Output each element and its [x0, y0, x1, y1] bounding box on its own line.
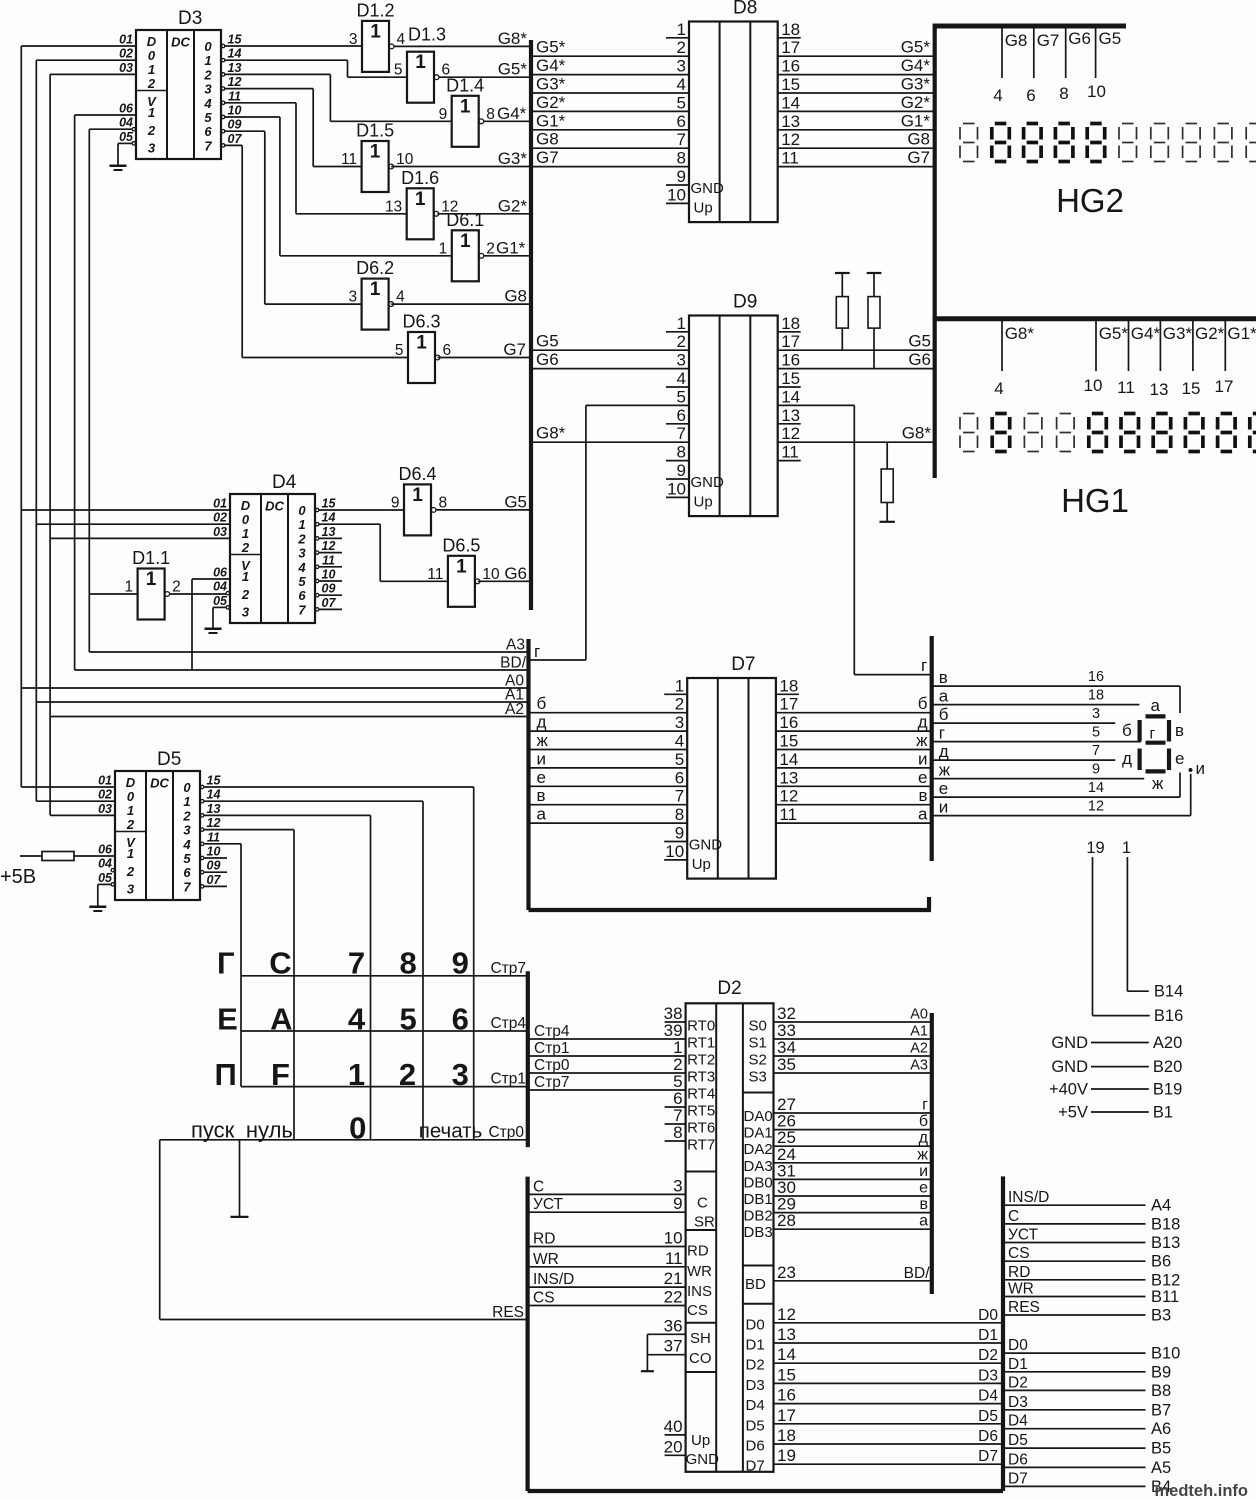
svg-text:B19: B19 [1153, 1081, 1182, 1099]
svg-text:G5*: G5* [536, 38, 566, 57]
wire segment i to sketch [932, 774, 1191, 817]
svg-text:+40V: +40V [1049, 1081, 1088, 1099]
svg-text:05: 05 [119, 130, 134, 144]
svg-text:5: 5 [204, 110, 212, 125]
svg-text:23: 23 [777, 1263, 796, 1282]
bus keyboard strobes to D2 [528, 1023, 686, 1040]
svg-text:8: 8 [399, 946, 416, 981]
net A1 wire D3.02 D4.02 D5.02 [36, 60, 230, 801]
svg-text:1: 1 [460, 231, 471, 252]
svg-text:3: 3 [242, 605, 250, 620]
svg-text:RD: RD [1008, 1264, 1030, 1281]
svg-text:б: б [537, 694, 547, 713]
svg-text:УСТ: УСТ [1008, 1227, 1039, 1244]
svg-text:DA0: DA0 [744, 1108, 773, 1125]
wire D1.1 output to D4.04 and BD [169, 579, 230, 670]
inverter D1.1 [124, 548, 180, 620]
svg-text:C: C [697, 1195, 708, 1212]
svg-text:1: 1 [456, 556, 467, 577]
ground at D3.05 [110, 143, 133, 170]
svg-text:5: 5 [677, 387, 686, 406]
svg-text:4: 4 [182, 837, 191, 852]
D2 Up GND pins 40 20 [664, 1417, 719, 1468]
svg-text:г: г [534, 642, 540, 661]
svg-text:13: 13 [777, 1325, 796, 1344]
svg-text:Up: Up [692, 856, 711, 873]
net A2 wire D3.03 D4.03 D5.03 [50, 74, 230, 815]
svg-text:д: д [939, 742, 949, 761]
svg-text:D: D [126, 775, 136, 790]
svg-text:CO: CO [689, 1350, 712, 1367]
connector wire C to B18 [1003, 1208, 1180, 1234]
svg-text:GND: GND [691, 180, 725, 197]
D3 input inversion circles [132, 128, 135, 146]
wire D9 pin16 to right bus G6 [778, 350, 935, 369]
svg-text:G5: G5 [1099, 29, 1122, 48]
wire D5.14 to keyboard column 4 [204, 801, 424, 1140]
svg-text:19: 19 [777, 1446, 796, 1465]
svg-text:2: 2 [172, 579, 181, 596]
svg-text:D4: D4 [746, 1397, 765, 1414]
svg-text:B20: B20 [1153, 1058, 1182, 1076]
svg-text:9: 9 [675, 824, 684, 843]
wire D6.5 output to bus G6 [478, 564, 531, 583]
svg-text:4: 4 [348, 1001, 366, 1036]
svg-text:D8: D8 [733, 0, 757, 19]
svg-text:5: 5 [675, 750, 684, 769]
inverter D1.6 [385, 168, 459, 240]
svg-text:11: 11 [665, 1249, 683, 1268]
wire D9 pin12 to right bus G8* [778, 424, 935, 443]
svg-text:16: 16 [777, 1386, 796, 1405]
svg-text:2: 2 [677, 332, 686, 351]
svg-text:medteh.info: medteh.info [1155, 1482, 1249, 1500]
svg-text:02: 02 [119, 47, 133, 61]
svg-text:5: 5 [399, 1001, 416, 1036]
connector wire D3 to B7 [1003, 1394, 1171, 1420]
svg-text:16: 16 [779, 713, 798, 732]
connector +40V B19 [1049, 1081, 1182, 1099]
svg-text:е: е [939, 779, 948, 798]
svg-text:D3: D3 [1008, 1394, 1028, 1411]
svg-text:2: 2 [126, 817, 135, 832]
svg-text:пуск: пуск [191, 1118, 235, 1143]
pusk button contact drop with bar [231, 1140, 249, 1217]
svg-text:4: 4 [994, 379, 1003, 398]
svg-text:10: 10 [665, 842, 684, 861]
svg-text:0: 0 [127, 789, 135, 804]
svg-text:6: 6 [183, 865, 191, 880]
svg-text:04: 04 [119, 116, 133, 130]
wire UST to D2 pin9 [528, 1196, 686, 1213]
wire D1.4 output G4* to bus [483, 104, 531, 123]
svg-text:2: 2 [241, 540, 250, 555]
svg-text:ж: ж [537, 731, 549, 750]
svg-text:BD: BD [745, 1276, 766, 1293]
svg-text:G8*: G8* [902, 424, 932, 443]
D2 SH CO section grounded pins 36 37 [641, 1316, 712, 1371]
svg-text:в: в [920, 1196, 929, 1213]
wire D1.3 output to bus G5* [439, 60, 531, 79]
svg-text:D: D [241, 498, 251, 513]
svg-text:13: 13 [781, 112, 800, 131]
svg-text:1: 1 [124, 579, 133, 596]
svg-text:B5: B5 [1151, 1440, 1171, 1458]
svg-text:18: 18 [779, 676, 798, 695]
connector wire УСТ to B13 [1003, 1227, 1180, 1253]
svg-text:G8: G8 [1005, 31, 1028, 50]
svg-text:01: 01 [98, 774, 112, 788]
key labels row 4 [191, 1110, 482, 1145]
svg-text:RT6: RT6 [687, 1120, 715, 1137]
svg-text:G1*: G1* [1227, 324, 1256, 343]
wire A1 line to bus [36, 687, 528, 704]
svg-text:10: 10 [667, 185, 686, 204]
svg-text:G1*: G1* [496, 238, 526, 257]
svg-text:12: 12 [781, 130, 800, 149]
D2 BD label pin 23 [745, 1263, 796, 1293]
svg-text:A0: A0 [910, 1007, 928, 1023]
D5 output stubs [205, 858, 228, 886]
thick junction line below D7 [529, 897, 932, 910]
svg-text:3: 3 [148, 141, 156, 156]
D5 input inversion circles [111, 869, 114, 887]
svg-text:07: 07 [228, 132, 243, 146]
svg-text:B14: B14 [1154, 983, 1183, 1001]
svg-text:д: д [537, 713, 547, 732]
D3 input pin numbers [119, 33, 134, 144]
wire bus to D9 pin2 G5 [531, 332, 689, 351]
svg-text:3: 3 [298, 546, 306, 561]
svg-text:13: 13 [207, 802, 221, 816]
bus G-signals left [529, 40, 533, 610]
svg-text:D6.5: D6.5 [442, 535, 480, 555]
svg-text:4: 4 [677, 75, 686, 94]
wire D3.12 to D1.5 input [224, 89, 362, 167]
svg-text:С: С [269, 946, 291, 981]
HG2 pin line G8 [993, 29, 1027, 106]
svg-text:7: 7 [1092, 743, 1100, 759]
svg-text:12: 12 [1088, 799, 1104, 815]
svg-text:G1*: G1* [536, 111, 566, 130]
svg-text:3: 3 [452, 1057, 469, 1092]
keyboard row wire Str1 [241, 1071, 528, 1088]
svg-text:D6.1: D6.1 [446, 210, 484, 230]
svg-text:4: 4 [203, 96, 212, 111]
svg-text:5: 5 [394, 62, 403, 79]
wire D3.14 to D1.3 input [224, 60, 407, 77]
svg-text:A1: A1 [910, 1024, 928, 1040]
bus control left [525, 1177, 529, 1491]
svg-text:G8: G8 [907, 130, 930, 149]
svg-text:7: 7 [298, 602, 306, 617]
svg-text:3: 3 [677, 57, 686, 76]
D2 DB labels [744, 1161, 796, 1241]
HG1 top line [933, 316, 1256, 321]
svg-text:06: 06 [98, 843, 113, 857]
wire D3.10 to D6.1 input [224, 117, 452, 256]
svg-text:D4: D4 [1008, 1413, 1028, 1430]
svg-text:D5: D5 [157, 749, 181, 770]
svg-text:2: 2 [203, 67, 212, 82]
svg-text:WR: WR [1008, 1281, 1034, 1298]
connector wire D5 to B5 [1003, 1432, 1171, 1458]
HG1 pin line G8* [994, 321, 1034, 398]
wire segment e to sketch [932, 773, 1180, 799]
svg-text:д: д [918, 713, 928, 732]
svg-text:B16: B16 [1154, 1007, 1183, 1025]
svg-text:D9: D9 [733, 292, 757, 313]
svg-text:4: 4 [677, 369, 686, 388]
D2 C SR section [673, 1177, 715, 1231]
svg-text:7: 7 [675, 787, 684, 806]
inverter D1.3 [394, 25, 450, 103]
svg-text:ж: ж [917, 1146, 928, 1163]
svg-text:A3: A3 [506, 637, 525, 654]
wire D4.15 to D6.4 input [318, 509, 404, 511]
svg-text:1: 1 [677, 314, 686, 333]
connector wire WR to B11 [1003, 1281, 1179, 1307]
svg-text:G2*: G2* [498, 196, 528, 215]
svg-text:B6: B6 [1151, 1253, 1171, 1271]
D3 output pin numbers [228, 33, 243, 146]
svg-text:GND: GND [1051, 1058, 1088, 1076]
svg-text:1: 1 [415, 52, 426, 73]
svg-text:WR: WR [533, 1251, 559, 1268]
svg-text:G4*: G4* [497, 104, 527, 123]
bus D7 left [526, 639, 530, 910]
svg-text:D3: D3 [978, 1367, 998, 1384]
svg-text:13: 13 [322, 525, 336, 539]
svg-text:11: 11 [228, 89, 241, 103]
wire segment b to sketch [932, 705, 1116, 724]
svg-text:D5: D5 [746, 1417, 765, 1434]
svg-text:B3: B3 [1151, 1307, 1171, 1325]
svg-text:CS: CS [1008, 1245, 1030, 1262]
svg-text:B12: B12 [1151, 1271, 1180, 1289]
D4 input pin numbers [213, 497, 228, 608]
svg-text:17: 17 [781, 38, 800, 57]
svg-text:8: 8 [677, 443, 686, 462]
svg-text:14: 14 [228, 47, 242, 61]
svg-text:S0: S0 [749, 1018, 767, 1035]
svg-text:а: а [537, 805, 547, 824]
pull-up resistor R1 on G5 wire [835, 273, 850, 350]
svg-text:8: 8 [1059, 84, 1068, 103]
svg-text:GND: GND [689, 837, 723, 854]
svg-text:G7: G7 [1037, 31, 1060, 50]
svg-text:G8*: G8* [536, 424, 566, 443]
D2 RD WR INS CS section [664, 1229, 712, 1320]
svg-text:06: 06 [213, 566, 228, 580]
wire segment zh to sketch [932, 761, 1144, 780]
svg-text:7: 7 [348, 946, 365, 981]
net A3 wire from D3.04 [89, 129, 132, 652]
svg-text:G5*: G5* [901, 38, 931, 57]
inverter D1.2 [349, 0, 406, 72]
svg-text:03: 03 [119, 61, 133, 75]
svg-text:5: 5 [298, 574, 306, 589]
svg-text:13: 13 [779, 768, 798, 787]
svg-text:Up: Up [694, 199, 713, 216]
HG1 pin line G2* [1182, 321, 1225, 398]
HG2 top line [933, 24, 1126, 29]
svg-text:14: 14 [781, 387, 800, 406]
svg-text:B8: B8 [1151, 1382, 1171, 1400]
svg-text:1: 1 [204, 53, 211, 68]
svg-text:а: а [1151, 696, 1161, 715]
svg-text:D0: D0 [746, 1316, 765, 1333]
svg-text:A6: A6 [1151, 1420, 1171, 1438]
segment sketch bar zh [1146, 771, 1166, 793]
svg-text:3: 3 [673, 1177, 682, 1196]
svg-text:RES: RES [492, 1304, 524, 1321]
svg-text:9: 9 [452, 946, 469, 981]
wire segment v to sketch [932, 668, 1180, 713]
svg-text:G5: G5 [908, 332, 931, 351]
svg-text:G1*: G1* [901, 111, 931, 130]
svg-text:8: 8 [677, 149, 686, 168]
svg-text:7: 7 [677, 130, 686, 149]
svg-text:6: 6 [298, 588, 306, 603]
svg-text:1: 1 [370, 142, 381, 163]
svg-text:15: 15 [228, 33, 243, 47]
svg-text:B7: B7 [1151, 1401, 1171, 1419]
svg-text:0: 0 [242, 512, 250, 527]
svg-text:4: 4 [397, 31, 406, 48]
svg-text:D3: D3 [746, 1377, 765, 1394]
wire D6.2 output to bus G8 [391, 287, 531, 306]
svg-text:и: и [919, 1163, 928, 1180]
svg-text:1: 1 [127, 803, 134, 818]
svg-text:3: 3 [204, 82, 212, 97]
svg-text:D4: D4 [272, 472, 297, 493]
svg-text:д: д [1122, 749, 1132, 768]
svg-text:1: 1 [148, 105, 155, 120]
register D8 [666, 0, 801, 222]
wire D3.09 to D6.2 input [224, 131, 362, 304]
connector wire D0 to B10 [1003, 1337, 1180, 1363]
svg-text:1: 1 [415, 189, 426, 210]
svg-text:S1: S1 [749, 1035, 767, 1052]
svg-text:G7: G7 [907, 148, 930, 167]
svg-text:D7: D7 [746, 1458, 765, 1475]
svg-text:0: 0 [204, 39, 212, 54]
wire D1.5 output to bus G3* [391, 149, 531, 168]
connector wire D2 to B8 [1003, 1374, 1171, 1400]
svg-text:11: 11 [779, 805, 797, 824]
wire D9 pin14 to right bus via down jog g [778, 405, 932, 675]
svg-text:10: 10 [482, 566, 500, 583]
wire D5.11 to keyboard column 1 [204, 844, 242, 1087]
wire D2 BD output to bus [774, 1265, 932, 1282]
svg-text:Стр7: Стр7 [490, 960, 526, 977]
svg-text:D0: D0 [978, 1307, 998, 1324]
svg-text:15: 15 [781, 75, 800, 94]
svg-text:3: 3 [1092, 706, 1100, 722]
svg-text:19: 19 [1086, 839, 1104, 857]
svg-text:D: D [147, 34, 157, 49]
svg-text:2: 2 [675, 695, 684, 714]
wires D2 DA outputs to bus segment letters [774, 1097, 932, 1114]
svg-text:15: 15 [781, 369, 800, 388]
svg-text:D0: D0 [1008, 1337, 1028, 1354]
svg-text:3: 3 [183, 823, 191, 838]
svg-text:17: 17 [1215, 377, 1234, 396]
svg-text:CS: CS [687, 1302, 708, 1319]
wires D2 DB outputs to bus segment letters [774, 1163, 932, 1180]
svg-text:G6: G6 [1068, 29, 1091, 48]
svg-text:D6: D6 [1008, 1451, 1028, 1468]
svg-text:G6: G6 [536, 350, 559, 369]
svg-text:B1: B1 [1153, 1104, 1173, 1122]
D4 output pin numbers [322, 497, 337, 610]
controller D2 [686, 978, 774, 1472]
wire D5.12 to keyboard column 2 [204, 830, 295, 1140]
svg-text:6: 6 [677, 406, 686, 425]
svg-text:10: 10 [1084, 376, 1103, 395]
svg-text:10: 10 [322, 568, 336, 582]
svg-text:13: 13 [228, 61, 242, 75]
svg-text:10: 10 [1087, 82, 1106, 101]
svg-text:1: 1 [242, 569, 249, 584]
svg-text:DC: DC [265, 499, 284, 514]
svg-text:3: 3 [348, 289, 357, 306]
svg-text:INS/D: INS/D [533, 1271, 574, 1288]
svg-text:17: 17 [779, 695, 798, 714]
wire D4.14 to D6.5 input [318, 524, 448, 581]
svg-text:17: 17 [781, 332, 800, 351]
svg-text:1: 1 [183, 794, 190, 809]
svg-text:G2*: G2* [1195, 324, 1225, 343]
svg-text:01: 01 [119, 33, 133, 47]
svg-text:12: 12 [777, 1305, 796, 1324]
svg-text:GND: GND [691, 474, 725, 491]
svg-text:D1: D1 [1008, 1356, 1028, 1373]
svg-text:15: 15 [1182, 379, 1201, 398]
svg-text:C: C [1008, 1208, 1019, 1225]
svg-text:01: 01 [213, 497, 227, 511]
svg-text:10: 10 [207, 845, 221, 859]
D5 output pin numbers [207, 774, 222, 887]
svg-text:04: 04 [98, 857, 112, 871]
HG2 pin line G5 [1087, 29, 1121, 102]
svg-text:14: 14 [322, 511, 336, 525]
svg-text:G3*: G3* [1163, 324, 1193, 343]
svg-text:G5*: G5* [1099, 324, 1129, 343]
svg-text:б: б [939, 705, 949, 724]
svg-text:2: 2 [399, 1057, 416, 1092]
bus right display [933, 26, 937, 478]
svg-text:1: 1 [348, 1057, 365, 1092]
svg-text:18: 18 [781, 20, 800, 39]
wire D3.15 to D1.2 input [224, 45, 362, 47]
svg-text:15: 15 [322, 497, 337, 511]
wire INS/D to D2 pin21 [528, 1271, 686, 1288]
svg-text:HG1: HG1 [1061, 482, 1129, 519]
svg-text:печать: печать [419, 1120, 483, 1143]
svg-text:G7: G7 [503, 340, 526, 359]
svg-text:0: 0 [183, 780, 191, 795]
svg-text:A4: A4 [1151, 1197, 1171, 1215]
svg-text:в: в [939, 668, 948, 687]
wire D9 pin17 to right bus G5 [778, 332, 935, 351]
D4 input inversion circles [226, 592, 229, 610]
svg-text:б: б [919, 1113, 928, 1130]
bus D7 right [930, 636, 934, 861]
svg-text:G8: G8 [504, 287, 527, 306]
svg-text:9: 9 [439, 106, 448, 123]
